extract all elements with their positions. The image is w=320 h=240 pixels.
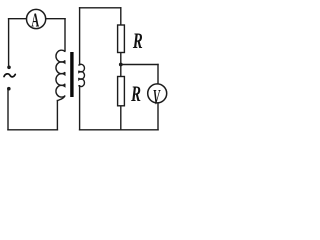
wire: left vertical from top corner down to AC source top terminal xyxy=(8,19,10,66)
wire: primary loop bottom horizontal xyxy=(8,129,57,131)
wire: voltmeter column vertical down to voltmeter top xyxy=(157,65,159,84)
wire: primary right vertical down to transformer primary coil xyxy=(64,19,66,52)
resistor R2 box xyxy=(118,77,125,106)
wire: voltmeter bottom lead down to bottom wire xyxy=(157,104,159,130)
wire: left vertical from bottom corner up to AC source bottom terminal xyxy=(7,90,9,130)
voltmeter V meter circle xyxy=(148,84,167,103)
transformer T1 iron core bar xyxy=(70,52,73,97)
wire: secondary bottom horizontal xyxy=(80,129,158,131)
voltmeter letter V xyxy=(153,85,161,109)
transformer T1 primary winding xyxy=(56,50,65,101)
ammeter A meter circle xyxy=(26,9,45,28)
wire: ammeter right lead to top-right corner of primary loop xyxy=(46,18,65,20)
label R (R1 value) xyxy=(132,29,143,54)
wire: primary coil exit down-left vertical xyxy=(56,101,58,130)
transformer T1 secondary winding xyxy=(79,64,85,86)
AC source G1 bottom terminal dot xyxy=(7,87,11,91)
node junction dot between R1 and R2 xyxy=(119,63,123,67)
resistor R1 box xyxy=(118,25,125,53)
wire: between R1 bottom and R2 top through node xyxy=(120,53,122,77)
svg-text:A: A xyxy=(31,10,39,31)
wire: secondary coil top vertical up to top wire xyxy=(79,8,81,65)
ammeter letter A xyxy=(31,10,39,31)
wire: top-left horizontal from corner to ammeter xyxy=(9,18,26,20)
svg-text:R: R xyxy=(132,29,143,54)
AC source G1 tilde symbol xyxy=(4,74,15,77)
AC source G1 top terminal dot xyxy=(7,66,11,70)
wire: R2 bottom lead down to bottom wire xyxy=(120,106,122,130)
svg-text:V: V xyxy=(153,85,161,109)
svg-text:R: R xyxy=(130,82,141,107)
label R (R2 value) xyxy=(130,82,141,107)
wire: secondary top horizontal xyxy=(80,7,121,9)
wire: top-right vertical down to resistor R1 xyxy=(120,8,122,25)
wire: branch from node to voltmeter column xyxy=(121,64,158,66)
wire: secondary coil bottom vertical xyxy=(79,86,81,130)
